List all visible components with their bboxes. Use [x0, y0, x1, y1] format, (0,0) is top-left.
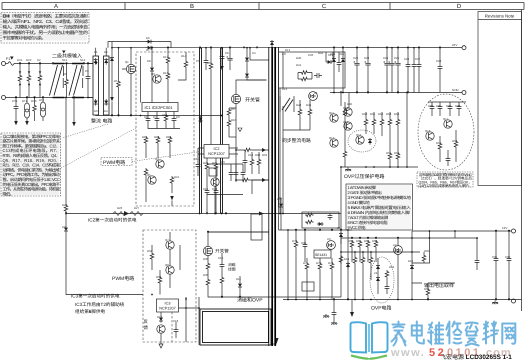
diode D15 — [341, 57, 345, 64]
diode D2 horizontal — [146, 46, 153, 50]
diode D14 — [332, 57, 336, 64]
svg-text:D7: D7 — [146, 48, 150, 52]
resistor R54 — [388, 118, 392, 127]
tiny designator labels — [12, 36, 511, 323]
svg-text:R63: R63 — [372, 239, 378, 243]
svg-text:C12: C12 — [203, 187, 209, 191]
svg-text:R35: R35 — [203, 257, 209, 261]
RC box loop — [302, 212, 339, 228]
resistor R32 — [158, 276, 162, 285]
svg-text:R44: R44 — [306, 103, 312, 107]
IC1 box — [142, 103, 178, 112]
thermistor RT2 — [40, 98, 45, 122]
zener ZD2 — [376, 264, 380, 271]
resistor R31 — [150, 252, 154, 261]
resistor R12 — [166, 56, 170, 65]
svg-text:RV2: RV2 — [26, 58, 32, 62]
transistor Q3 — [153, 75, 161, 83]
svg-text:D11: D11 — [236, 277, 241, 281]
resistor R56 — [388, 152, 392, 161]
svg-text:IC1 ICE2PCS01: IC1 ICE2PCS01 — [145, 105, 173, 110]
cap C24 — [384, 61, 390, 68]
bridge wires — [88, 48, 221, 116]
svg-text:IC3: IC3 — [165, 302, 171, 306]
svg-text:C4: C4 — [252, 51, 256, 55]
resistor R68 sampling — [422, 254, 426, 263]
resistor R5 — [118, 48, 120, 80]
svg-text:R26: R26 — [117, 206, 123, 210]
svg-text:D8: D8 — [147, 59, 151, 63]
resistor R13 — [166, 72, 170, 81]
drop wires to IC2 — [200, 48, 202, 214]
bottom cap with ground — [351, 300, 353, 313]
svg-text:R50: R50 — [362, 112, 368, 116]
secondary bus — [279, 229, 352, 231]
svg-text:R30: R30 — [255, 153, 261, 157]
svg-text:C30: C30 — [428, 104, 434, 108]
resistor R73 — [318, 262, 322, 271]
svg-text:12V: 12V — [502, 226, 507, 230]
svg-text:9 VCC 供电: 9 VCC 供电 — [348, 225, 366, 230]
resistor R52 — [372, 118, 376, 127]
resistor R25 — [214, 162, 218, 171]
right border — [521, 10, 523, 312]
cap CY1 below line — [15, 98, 17, 105]
svg-text:Q7: Q7 — [165, 238, 169, 242]
svg-text:C6: C6 — [144, 115, 148, 119]
resistor R60 — [339, 255, 343, 264]
svg-text:D12: D12 — [285, 48, 291, 52]
svg-text:C5: C5 — [196, 59, 200, 63]
svg-text:R17: R17 — [142, 135, 148, 139]
svg-text:R72: R72 — [316, 261, 322, 265]
svg-text:C7: C7 — [153, 115, 157, 119]
header band — [2, 3, 524, 10]
resistors bottom of PFC box — [144, 136, 148, 145]
svg-text:RV3: RV3 — [31, 99, 37, 103]
resistor R55 — [396, 118, 400, 127]
transistor Q7 — [166, 241, 174, 249]
fuse F1 — [6, 62, 94, 98]
diode D9 — [238, 282, 242, 289]
svg-text:C35: C35 — [492, 255, 498, 259]
transistor Q15 — [356, 136, 364, 144]
svg-text:Z1: Z1 — [374, 259, 378, 263]
svg-text:C9: C9 — [176, 115, 180, 119]
svg-text:R51: R51 — [370, 112, 376, 116]
diode D4 — [151, 48, 153, 66]
sampling loop — [412, 231, 430, 263]
cap C14 — [234, 170, 239, 177]
resistor R63 — [366, 240, 370, 249]
svg-text:D2: D2 — [104, 50, 108, 54]
svg-text:R54: R54 — [394, 112, 400, 116]
svg-text:Q11: Q11 — [329, 111, 335, 115]
svg-text:NCP1207: NCP1207 — [208, 152, 224, 156]
resistor R62 — [358, 240, 362, 249]
svg-text:C26: C26 — [404, 57, 410, 61]
svg-text:C28: C28 — [436, 59, 442, 63]
svg-text:R25: R25 — [212, 161, 218, 165]
svg-text:C36: C36 — [505, 255, 511, 259]
svg-text:R14: R14 — [181, 54, 187, 58]
cap C30 — [438, 64, 443, 71]
revisions note box — [478, 12, 522, 186]
dotted leader — [61, 128, 136, 168]
cap C38 — [507, 256, 512, 263]
cap C11 — [196, 162, 201, 169]
cap C10 — [229, 170, 234, 177]
svg-text:C22: C22 — [353, 56, 359, 60]
cap C21 — [337, 60, 342, 67]
ground C41 — [331, 321, 337, 325]
svg-text:R27: R27 — [134, 206, 140, 210]
svg-text:C33: C33 — [455, 104, 461, 108]
svg-text:IC3第一次启动时的供电: IC3第一次启动时的供电 — [71, 294, 120, 299]
svg-text:Q16: Q16 — [425, 129, 431, 133]
svg-text:U1: U1 — [314, 91, 318, 95]
svg-text:CY1: CY1 — [12, 99, 18, 103]
ground OVP bus — [345, 168, 351, 172]
snubber diodes — [246, 48, 248, 56]
diode D18 — [346, 262, 350, 269]
cap C2 — [39, 64, 41, 75]
svg-text:D6: D6 — [146, 36, 150, 40]
svg-text:Q4: Q4 — [155, 157, 159, 161]
svg-text:F1: F1 — [6, 57, 10, 61]
svg-text:D: D — [457, 3, 462, 10]
svg-text:开关管: 开关管 — [215, 249, 229, 254]
degauss relay cap — [220, 262, 225, 269]
diode D19 snubber — [245, 56, 249, 63]
svg-text:R60: R60 — [348, 239, 354, 243]
svg-text:组给第6脚供电: 组给第6脚供电 — [75, 309, 106, 314]
svg-text:C2: C2 — [37, 58, 41, 62]
svg-text:B: B — [190, 3, 194, 10]
resistor R65 — [353, 256, 357, 265]
zener ZD1 — [368, 138, 372, 145]
svg-text:Q6: Q6 — [221, 160, 225, 164]
varistor RV1 — [19, 64, 21, 75]
opto U3 — [327, 241, 336, 250]
cap C39 — [385, 284, 390, 291]
svg-text:馈: 馈 — [144, 325, 149, 330]
resistor R46 — [343, 150, 347, 159]
svg-text:D1: D1 — [94, 50, 98, 54]
svg-text:PWM电路: PWM电路 — [103, 159, 125, 166]
svg-text:R9: R9 — [231, 107, 235, 111]
opto U1 — [309, 92, 318, 101]
IC3 box — [157, 299, 179, 312]
diode D6 startup — [64, 226, 68, 233]
transistor Q6 — [211, 178, 219, 186]
svg-text:反: 反 — [144, 319, 149, 324]
aux winding wires — [186, 297, 199, 345]
svg-text:R42: R42 — [318, 51, 324, 55]
T1 primary taps — [250, 48, 269, 60]
svg-text:R36: R36 — [203, 273, 209, 277]
svg-text:24V: 24V — [452, 43, 457, 47]
cap C28 — [412, 62, 417, 69]
cap C3 — [87, 64, 89, 75]
svg-text:R53: R53 — [386, 112, 392, 116]
resistor R74 — [330, 262, 334, 271]
svg-text:消磁和OVP: 消磁和OVP — [237, 297, 263, 304]
svg-text:U3: U3 — [327, 237, 331, 241]
resistor R70 — [385, 270, 389, 279]
svg-text:Q8: Q8 — [165, 263, 169, 267]
svg-text:EMI（电磁干扰）滤波电路；主要完成抗急通射: EMI（电磁干扰）滤波电路；主要完成抗急通射 — [3, 14, 89, 19]
svg-text:7.8: 7.8 — [282, 52, 287, 56]
small box left of T2 — [251, 214, 262, 240]
diode D1 horizontal — [146, 40, 153, 44]
svg-text:C20: C20 — [308, 53, 314, 57]
svg-text:C8: C8 — [225, 51, 229, 55]
cap C34 — [457, 104, 462, 111]
svg-text:C39: C39 — [301, 241, 307, 245]
svg-text:R65: R65 — [424, 249, 430, 253]
cap C4 snubber — [220, 54, 225, 61]
zener ZD3 — [376, 276, 380, 283]
svg-text:D13: D13 — [282, 87, 288, 91]
resistor R64 — [374, 240, 378, 249]
diode D10 — [326, 60, 333, 64]
svg-text:R43: R43 — [296, 103, 302, 107]
svg-text:R40: R40 — [296, 56, 302, 60]
dotted OVP ellipse — [370, 257, 394, 303]
AC input terminal N — [2, 96, 6, 100]
svg-text:Q4在1次侧达成激使系统进入保护。: Q4在1次侧达成激使系统进入保护。 — [419, 183, 472, 188]
diode D20 snubber — [245, 72, 249, 79]
resistor R43 — [298, 108, 302, 117]
svg-text:Q13: Q13 — [343, 106, 349, 110]
TL431 box — [314, 250, 331, 258]
diode D3 — [111, 48, 113, 56]
cap C23 — [365, 61, 371, 68]
svg-text:Z2: Z2 — [374, 271, 378, 275]
resistor R69 sampling — [426, 288, 430, 297]
svg-text:C24: C24 — [383, 56, 389, 60]
wire — [66, 213, 341, 215]
vertical feeds — [341, 93, 349, 109]
svg-text:D4: D4 — [104, 109, 108, 113]
choke NF1 — [50, 64, 65, 98]
svg-text:GND: GND — [452, 88, 460, 92]
cap C5 — [204, 58, 209, 65]
resistor R44 — [308, 108, 312, 117]
svg-text:R41: R41 — [296, 63, 302, 67]
big blue characters 家电维修资料网 as paths — [392, 322, 406, 346]
cap C27 — [406, 62, 411, 69]
cap C16 — [174, 327, 179, 334]
choke NF2 — [69, 64, 84, 98]
svg-text:飞宏电源 LCD30265S 1-1: 飞宏电源 LCD30265S 1-1 — [440, 353, 512, 361]
svg-text:D3: D3 — [94, 109, 98, 113]
svg-text:R73: R73 — [328, 261, 334, 265]
resistor R40 — [300, 71, 309, 75]
primary RC — [250, 158, 254, 167]
svg-text:D5: D5 — [109, 56, 113, 60]
resistor R53 — [380, 118, 384, 127]
cap C31 — [430, 104, 435, 111]
main top bus — [112, 47, 462, 49]
svg-text:R56: R56 — [394, 151, 400, 155]
svg-text:围市电器的干扰。另一方面防止电器产生的: 围市电器的干扰。另一方面防止电器产生的 — [3, 30, 89, 35]
svg-text:R55: R55 — [386, 151, 392, 155]
dotted ellipse — [348, 130, 376, 152]
wire into box — [140, 56, 142, 103]
svg-text:C11: C11 — [194, 157, 199, 161]
svg-text:D17: D17 — [277, 197, 283, 201]
svg-text:RT2: RT2 — [39, 98, 45, 102]
resistor R41 — [300, 77, 309, 81]
resistor R66 — [361, 256, 365, 265]
svg-text:Q3: Q3 — [151, 72, 155, 76]
svg-text:C25: C25 — [394, 56, 400, 60]
cap C35 — [446, 156, 451, 163]
resistor R45 — [343, 108, 347, 117]
transistor Q8 — [166, 266, 174, 274]
resistor R14 — [184, 60, 188, 69]
svg-text:R28: R28 — [62, 203, 68, 207]
svg-text:R21: R21 — [174, 175, 180, 179]
ground output — [492, 301, 498, 305]
svg-text:降低。: 降低。 — [3, 191, 14, 196]
transistor Q13 — [344, 108, 352, 116]
svg-text:IC2: IC2 — [214, 147, 220, 151]
wires around IC2 — [198, 148, 238, 154]
junction marks — [15, 47, 510, 301]
varistor RV2 — [28, 64, 30, 75]
svg-text:C32: C32 — [446, 104, 452, 108]
svg-text:R57: R57 — [436, 141, 442, 145]
svg-text:Q15: Q15 — [356, 133, 362, 137]
svg-text:输入、共模输入电路两列作用；一方面滤除来自: 输入、共模输入电路两列作用；一方面滤除来自 — [3, 25, 88, 30]
transistor Q14 — [344, 122, 352, 130]
svg-text:Q5: Q5 — [147, 173, 151, 177]
cap C40 — [303, 242, 308, 249]
svg-text:R71: R71 — [303, 261, 309, 265]
svg-text:D18: D18 — [344, 257, 350, 261]
transistor Q5 — [148, 176, 156, 184]
caps C12 C13 — [205, 188, 210, 195]
cap C36 — [475, 258, 480, 265]
svg-text:D15: D15 — [339, 52, 345, 56]
leader dotted to text block — [62, 124, 108, 138]
diode D16 — [410, 264, 414, 271]
diode D21 on rail — [199, 116, 203, 123]
caps row — [428, 101, 466, 103]
svg-text:A: A — [54, 3, 58, 10]
svg-text:D14: D14 — [330, 52, 336, 56]
svg-text:C16: C16 — [248, 153, 254, 157]
svg-text:NF2: NF2 — [80, 58, 86, 62]
svg-text:C3: C3 — [85, 69, 89, 73]
PFC mosfet Q1 — [126, 64, 135, 73]
resistor R10 current sense — [241, 178, 250, 182]
24V line — [347, 230, 349, 300]
svg-text:R3: R3 — [63, 72, 67, 76]
cap C32 — [438, 104, 443, 111]
small drive rect — [209, 168, 217, 176]
svg-text:OVP过压保护电路: OVP过压保护电路 — [344, 173, 385, 180]
svg-text:D10: D10 — [157, 315, 163, 319]
resistor R9 current sense — [243, 148, 252, 152]
AC input terminal L — [2, 62, 6, 66]
left vertical startup line — [65, 98, 67, 205]
svg-text:整流 电路: 整流 电路 — [91, 118, 112, 125]
series resistor R27 — [130, 212, 143, 216]
cap C41 — [332, 310, 337, 317]
resistor R24 — [205, 162, 209, 171]
svg-text:R58: R58 — [452, 139, 458, 143]
ground aux — [323, 314, 329, 318]
svg-text:D16: D16 — [408, 259, 414, 263]
thermistor RT1 — [24, 98, 29, 122]
svg-text:SE1431: SE1431 — [315, 253, 327, 257]
svg-text:NF1: NF1 — [62, 58, 68, 62]
cap C29 — [417, 62, 422, 69]
resistor R51 — [364, 118, 368, 127]
svg-text:R13: R13 — [163, 71, 169, 75]
output terminals — [412, 230, 511, 232]
svg-text:R6: R6 — [207, 61, 211, 65]
transistor Q17 — [444, 120, 452, 128]
cap C20 — [314, 73, 322, 78]
transistor Q12 — [330, 139, 338, 147]
svg-text:Q12: Q12 — [329, 136, 335, 140]
series resistor R26 — [113, 212, 126, 216]
svg-text:线圈: 线圈 — [228, 267, 236, 272]
output terminal GND — [512, 299, 516, 303]
svg-text:R31: R31 — [262, 153, 268, 157]
svg-text:PWM电路: PWM电路 — [112, 275, 134, 282]
svg-text:D9: D9 — [62, 225, 66, 229]
svg-text:C18: C18 — [173, 319, 179, 323]
svg-text:Q14: Q14 — [343, 120, 349, 124]
svg-text:C23: C23 — [364, 56, 370, 60]
caps below IC1 — [146, 116, 151, 123]
svg-text:R33: R33 — [156, 275, 162, 279]
cap C37 — [494, 256, 499, 263]
transistor Q11 — [330, 114, 338, 122]
bottom bus — [341, 166, 418, 168]
svg-text:RV1: RV1 — [17, 58, 23, 62]
transistor Q4 — [156, 160, 164, 168]
varistor RV3 — [34, 98, 36, 105]
schottky dual diode — [280, 96, 294, 112]
svg-text:Q1: Q1 — [125, 60, 129, 64]
svg-text:C27: C27 — [415, 57, 421, 61]
svg-text:IC2第一次启动时的供电: IC2第一次启动时的供电 — [88, 218, 137, 223]
resistor R57 — [396, 152, 400, 161]
resistor R3 between chokes — [66, 64, 68, 79]
svg-text:R62: R62 — [364, 239, 370, 243]
cap C26 — [395, 61, 401, 68]
svg-text:R66: R66 — [424, 287, 430, 291]
svg-text:www.: www. — [390, 347, 425, 359]
svg-text:C19: C19 — [218, 256, 224, 260]
output terminal 12V — [512, 229, 516, 233]
svg-text:C13: C13 — [212, 187, 218, 191]
svg-text:OVP电路: OVP电路 — [371, 305, 392, 312]
svg-text:R70: R70 — [292, 239, 298, 243]
resistor R58 — [438, 142, 442, 151]
svg-text:R19: R19 — [166, 135, 172, 139]
transistor Q9 — [157, 325, 165, 333]
svg-text:输入噪声 NF1、NF2、C3、C4组成。双向滤: 输入噪声 NF1、NF2、C3、C4组成。双向滤 — [3, 19, 89, 24]
cap C33 — [448, 104, 453, 111]
